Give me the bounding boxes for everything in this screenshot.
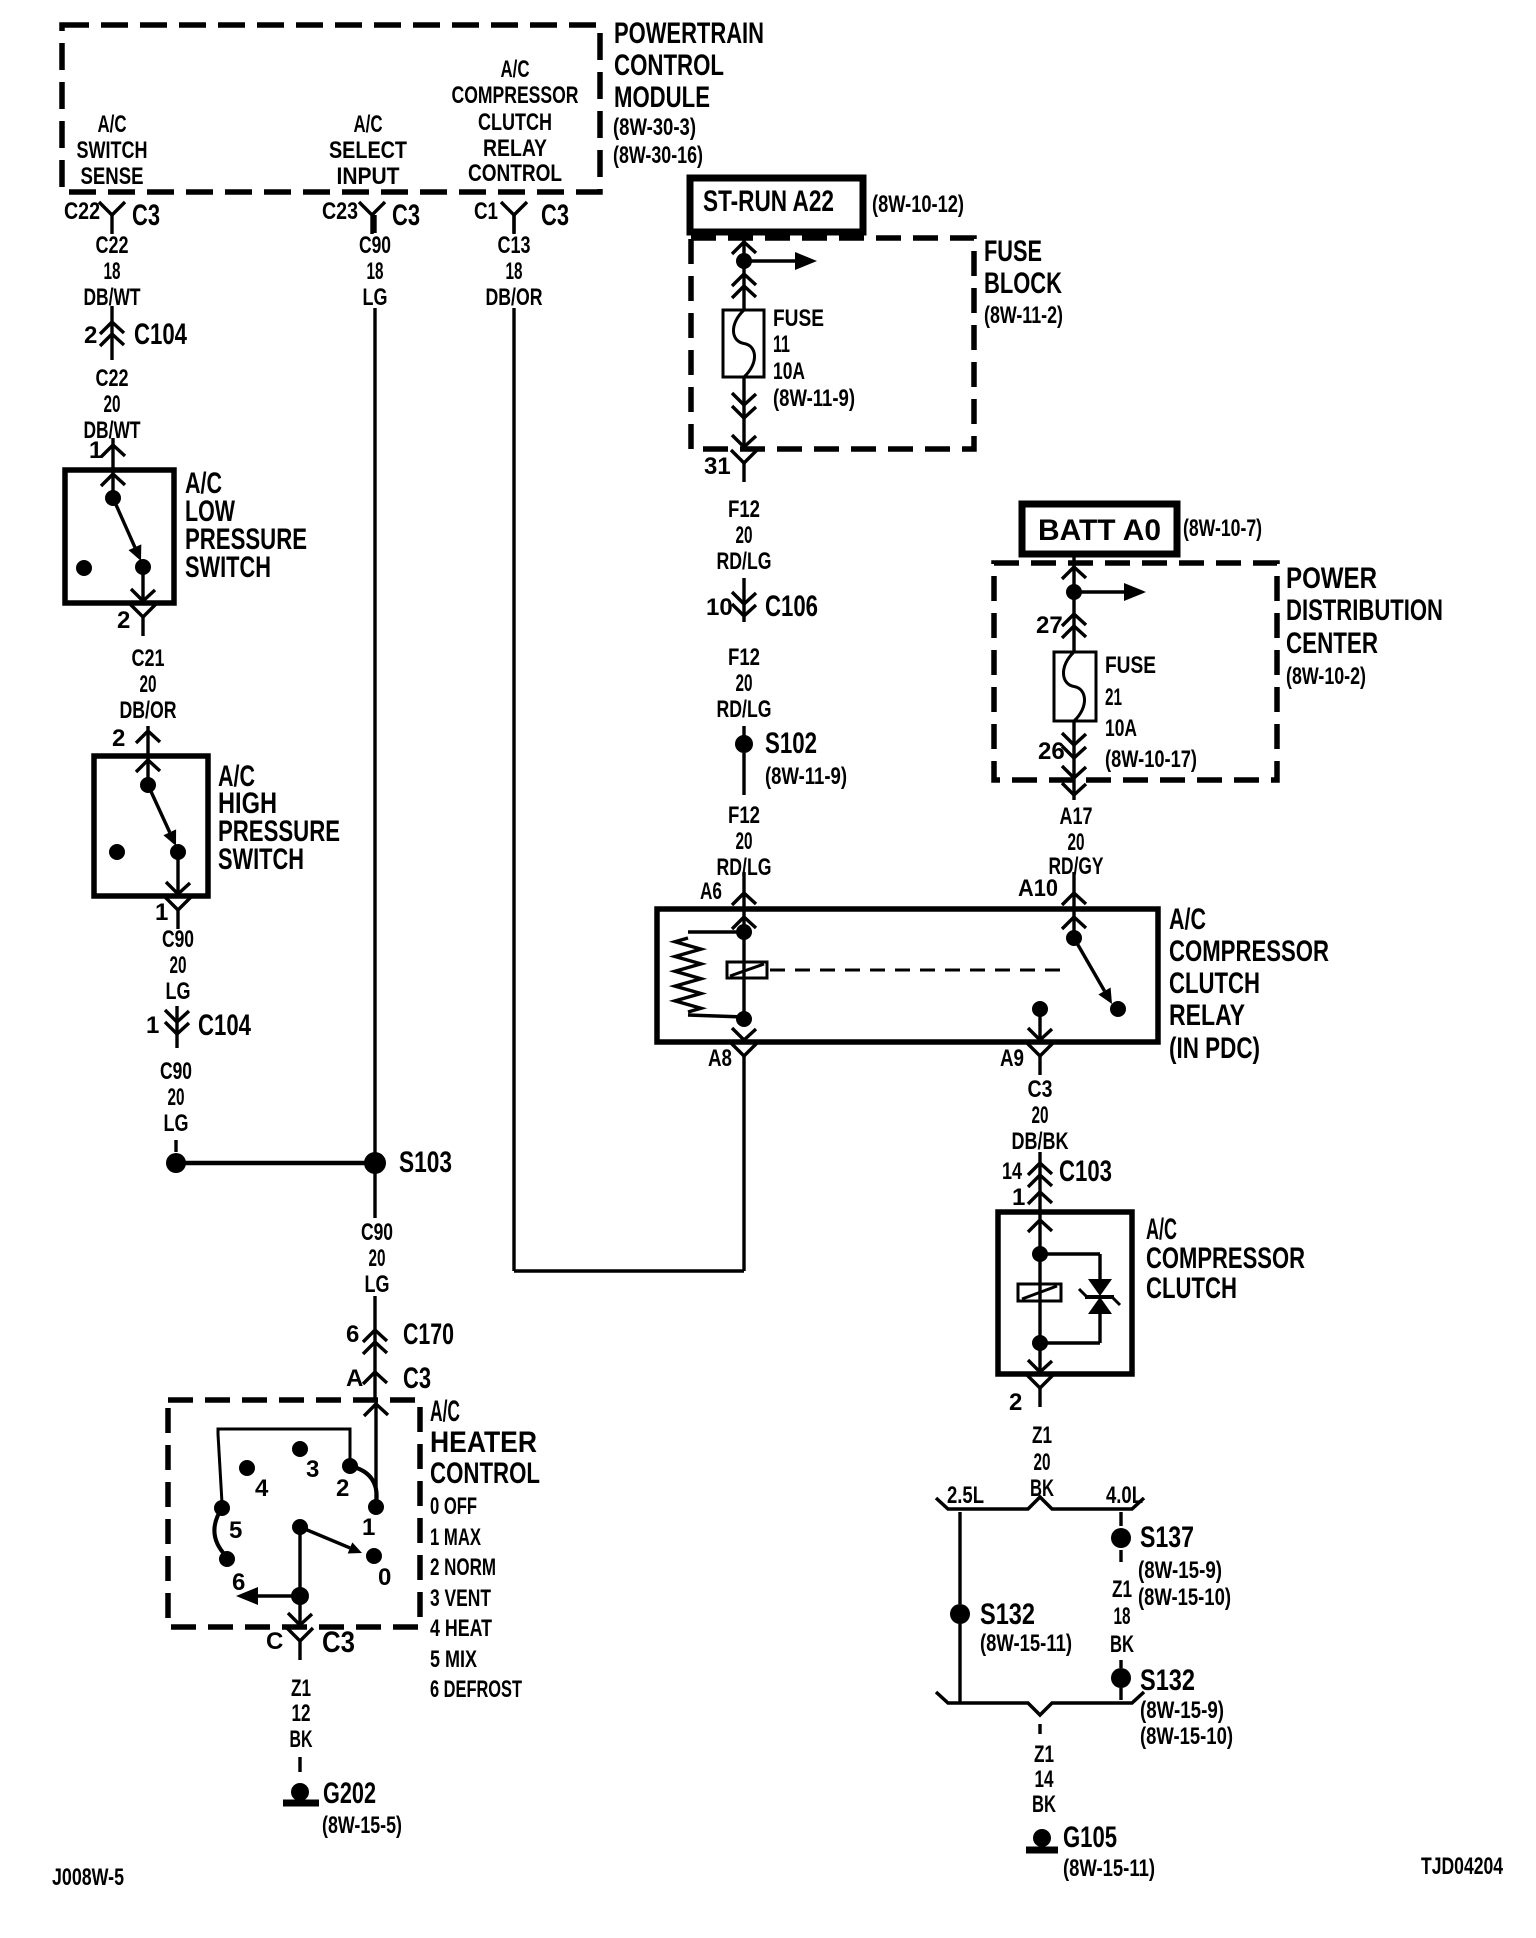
heater rotary position numbers	[229, 1456, 391, 1596]
heater common left arrow	[236, 1587, 309, 1605]
svg-text:(8W-30-3): (8W-30-3)	[613, 114, 696, 141]
wire label F12 20 RD/LG (1)	[717, 496, 772, 575]
svg-text:INPUT: INPUT	[337, 163, 400, 190]
relay actuation dashed link	[770, 969, 1063, 972]
svg-text:S102: S102	[765, 727, 817, 760]
svg-text:(8W-10-12): (8W-10-12)	[872, 191, 964, 218]
relay pin A10 connector	[1018, 872, 1086, 929]
svg-text:CLUTCH: CLUTCH	[1169, 967, 1260, 1000]
svg-text:6: 6	[346, 1321, 359, 1348]
sheet number J008W-5	[52, 1864, 124, 1891]
wire dash below merge bracket	[1038, 1724, 1041, 1734]
svg-text:C170: C170	[403, 1318, 454, 1351]
ground G202	[283, 1777, 402, 1839]
svg-text:COMPRESSOR: COMPRESSOR	[1169, 935, 1329, 968]
svg-text:5 MIX: 5 MIX	[430, 1646, 477, 1673]
svg-text:0 OFF: 0 OFF	[430, 1493, 477, 1520]
wire dash below lower S132	[1119, 1688, 1122, 1700]
relay pin A8 exit connector	[708, 1028, 757, 1075]
svg-text:RELAY: RELAY	[483, 135, 547, 162]
fuse 11 10A	[723, 310, 764, 447]
clutch diode branch wires	[1040, 1254, 1100, 1343]
wire label F12 20 RD/LG (2)	[717, 644, 772, 723]
svg-text:2 NORM: 2 NORM	[430, 1554, 496, 1581]
svg-text:COMPRESSOR: COMPRESSOR	[1146, 1242, 1305, 1275]
relay coil circuit	[675, 909, 752, 1027]
splice S102	[735, 727, 847, 790]
svg-text:A10: A10	[1018, 875, 1058, 902]
wire label C13 18 DB/OR	[486, 232, 543, 311]
svg-text:F12: F12	[728, 496, 760, 523]
heater exit connector C3 pin C	[266, 1596, 355, 1660]
heater mode list	[430, 1493, 522, 1703]
fuse 21 10A	[1054, 652, 1096, 778]
wire label Z1 18 BK (4.0L)	[1110, 1576, 1134, 1658]
A/C high pressure switch box	[94, 756, 208, 896]
svg-text:ST-RUN A22: ST-RUN A22	[703, 185, 834, 218]
svg-text:27: 27	[1036, 612, 1063, 639]
PDC pin 26 connector chevrons	[1038, 733, 1086, 765]
svg-text:LG: LG	[166, 978, 191, 1005]
svg-text:CLUTCH: CLUTCH	[1146, 1272, 1237, 1305]
svg-text:3: 3	[306, 1456, 319, 1483]
svg-text:2: 2	[1009, 1389, 1022, 1416]
fuse 21 label	[1105, 652, 1197, 773]
fuse block bus dot and arrow	[736, 252, 817, 270]
svg-text:(8W-15-10): (8W-15-10)	[1140, 1723, 1233, 1750]
fuse block title	[984, 235, 1063, 329]
svg-text:C22: C22	[96, 365, 129, 392]
heater arc position 5 to 6	[214, 1508, 226, 1556]
svg-text:(8W-15-5): (8W-15-5)	[322, 1812, 402, 1839]
svg-text:S132: S132	[980, 1598, 1035, 1631]
svg-text:BATT A0: BATT A0	[1038, 514, 1161, 547]
wire label C90 18 LG	[359, 232, 391, 311]
svg-text:C106: C106	[765, 590, 818, 623]
svg-text:26: 26	[1038, 738, 1065, 765]
A/C compressor clutch relay box (in PDC)	[657, 909, 1158, 1042]
svg-text:LG: LG	[363, 284, 388, 311]
svg-text:C13: C13	[498, 232, 531, 259]
wire below S102	[742, 753, 745, 795]
svg-text:(8W-15-11): (8W-15-11)	[1063, 1855, 1155, 1882]
svg-text:(8W-10-7): (8W-10-7)	[1183, 515, 1262, 542]
svg-text:C3: C3	[403, 1362, 431, 1395]
splice S137 (4.0L)	[1111, 1521, 1231, 1611]
wire dash above S102	[742, 726, 745, 737]
svg-text:BK: BK	[1032, 1791, 1056, 1818]
fuse block dashed box	[691, 238, 974, 449]
heater wiper arrow to position 0	[300, 1527, 362, 1554]
heater arc position 2 to 1	[350, 1466, 377, 1505]
svg-text:Z1: Z1	[1032, 1422, 1052, 1449]
PCM pin label A/C SELECT INPUT	[329, 111, 407, 190]
svg-text:J008W-5: J008W-5	[52, 1864, 124, 1891]
svg-text:CLUTCH: CLUTCH	[478, 109, 552, 136]
connector C3 pin C23 (PCM)	[322, 198, 420, 234]
splice S103	[364, 1146, 452, 1179]
svg-text:20: 20	[736, 828, 753, 855]
svg-text:A9: A9	[1000, 1045, 1024, 1072]
svg-text:BLOCK: BLOCK	[984, 267, 1062, 300]
svg-text:C3: C3	[322, 1626, 355, 1659]
wire label C90 20 LG	[162, 926, 194, 1005]
svg-text:F12: F12	[728, 802, 760, 829]
svg-text:C22: C22	[96, 232, 129, 259]
PDC bus dot and arrow	[1066, 583, 1146, 601]
heater control rotary track	[218, 1429, 350, 1503]
svg-text:20: 20	[140, 671, 157, 698]
relay pin A9 exit connector	[1000, 1028, 1053, 1075]
wire junction to splice S103	[176, 1161, 375, 1166]
svg-text:C104: C104	[134, 318, 187, 351]
low pressure switch pin 2 exit connector	[117, 567, 156, 636]
clutch title	[1146, 1213, 1305, 1305]
A/C high pressure switch title	[218, 760, 340, 876]
svg-text:LG: LG	[164, 1110, 189, 1137]
svg-text:5: 5	[229, 1517, 242, 1544]
svg-text:RD/LG: RD/LG	[717, 696, 772, 723]
fuse block bus connector chevrons	[732, 274, 756, 298]
svg-text:C90: C90	[359, 232, 391, 259]
svg-text:14: 14	[1002, 1158, 1022, 1185]
svg-text:A/C: A/C	[354, 111, 383, 138]
clutch coil symbol	[1018, 1284, 1061, 1301]
svg-text:20: 20	[736, 522, 753, 549]
relay pin A6 connector	[700, 872, 756, 929]
svg-text:18: 18	[1114, 1603, 1131, 1630]
A/C low pressure switch box	[65, 470, 174, 603]
splice S132 (2.5L)	[950, 1598, 1072, 1657]
wire 2.5L branch lower	[958, 1624, 961, 1702]
svg-text:31: 31	[704, 453, 731, 480]
svg-text:A17: A17	[1060, 803, 1093, 830]
svg-text:(8W-15-9): (8W-15-9)	[1140, 1697, 1224, 1724]
svg-text:(8W-10-2): (8W-10-2)	[1286, 663, 1366, 690]
svg-text:20: 20	[1068, 829, 1085, 856]
svg-text:20: 20	[168, 1084, 185, 1111]
wire label C21 20 DB/OR	[120, 645, 177, 724]
svg-text:6: 6	[232, 1569, 245, 1596]
svg-text:20: 20	[369, 1245, 386, 1272]
svg-text:CONTROL: CONTROL	[430, 1457, 540, 1490]
wire to heater control	[373, 1296, 376, 1400]
svg-text:TJD04204: TJD04204	[1421, 1853, 1503, 1880]
svg-text:(8W-11-9): (8W-11-9)	[765, 763, 847, 790]
A/C low pressure switch title	[185, 467, 307, 584]
svg-text:C90: C90	[162, 926, 194, 953]
wire dash above G202	[298, 1757, 301, 1772]
svg-text:POWERTRAIN: POWERTRAIN	[614, 17, 764, 50]
wire A/C select input (C90) vertical	[373, 215, 376, 1218]
PCM pin label A/C SWITCH SENSE	[77, 111, 148, 190]
svg-text:(8W-15-9): (8W-15-9)	[1138, 1557, 1222, 1584]
svg-text:21: 21	[1105, 684, 1122, 711]
relay switch arm from A10	[1066, 909, 1126, 1017]
drawing number TJD04204	[1421, 1853, 1503, 1880]
svg-text:HEATER: HEATER	[430, 1426, 537, 1459]
svg-text:14: 14	[1035, 1766, 1054, 1793]
svg-text:F12: F12	[728, 644, 760, 671]
svg-text:0: 0	[378, 1564, 391, 1591]
svg-text:2: 2	[336, 1475, 349, 1502]
svg-text:3 VENT: 3 VENT	[430, 1585, 491, 1612]
power distribution center title	[1286, 562, 1443, 690]
svg-text:SELECT: SELECT	[329, 137, 407, 164]
splice S132 (4.0L)	[1111, 1664, 1233, 1750]
svg-text:S103: S103	[399, 1146, 452, 1179]
clutch suppression diode	[1079, 1279, 1120, 1314]
svg-text:SWITCH: SWITCH	[77, 137, 148, 164]
svg-text:C3: C3	[541, 199, 569, 232]
clutch coil branch	[1032, 1246, 1048, 1351]
svg-text:BK: BK	[1110, 1631, 1134, 1658]
svg-text:FUSE: FUSE	[773, 305, 824, 332]
svg-text:C3: C3	[132, 199, 160, 232]
wire 2.5L branch	[958, 1512, 961, 1604]
wire label C90 20 LG (below S103)	[361, 1219, 393, 1298]
high pressure switch contacts and arm	[109, 777, 186, 860]
relay contact to A9	[1032, 1001, 1048, 1040]
svg-text:A/C: A/C	[430, 1395, 460, 1428]
wire label Z1 12 BK	[290, 1675, 313, 1753]
svg-text:(8W-30-16): (8W-30-16)	[613, 142, 703, 169]
connector C106 pin 10	[706, 578, 818, 623]
connector C104 pin 2	[84, 306, 187, 360]
clutch pin 2 exit connector	[1009, 1343, 1053, 1416]
PDC pin 27 connector chevrons	[1036, 612, 1086, 639]
svg-text:G105: G105	[1063, 1821, 1117, 1854]
svg-text:4: 4	[255, 1475, 269, 1502]
heater wire from pin A to position 1	[374, 1400, 377, 1505]
wire ST-RUN into fuse block	[732, 232, 756, 310]
svg-text:C21: C21	[132, 645, 165, 672]
svg-text:RD/LG: RD/LG	[717, 548, 772, 575]
svg-text:(8W-10-17): (8W-10-17)	[1105, 746, 1197, 773]
svg-text:CENTER: CENTER	[1286, 627, 1378, 660]
svg-text:RELAY: RELAY	[1169, 999, 1245, 1032]
svg-text:A/C: A/C	[1169, 903, 1206, 936]
svg-text:FUSE: FUSE	[1105, 652, 1156, 679]
svg-text:(IN PDC): (IN PDC)	[1169, 1032, 1260, 1065]
svg-text:Z1: Z1	[1034, 1741, 1054, 1768]
wire label F12 20 RD/LG (3)	[717, 802, 772, 881]
svg-text:SWITCH: SWITCH	[185, 551, 271, 584]
svg-text:C3: C3	[392, 199, 420, 232]
heater rotary position dots	[214, 1441, 384, 1567]
svg-text:18: 18	[506, 258, 523, 285]
wire label C90 20 LG (below C104)	[160, 1058, 192, 1137]
svg-text:C23: C23	[322, 198, 358, 225]
svg-text:11: 11	[773, 331, 790, 358]
junction dot left	[166, 1153, 186, 1173]
svg-text:LG: LG	[365, 1271, 390, 1298]
svg-text:C22: C22	[64, 198, 100, 225]
connector C3 pin C1 (PCM)	[474, 198, 569, 234]
power distribution center dashed box	[994, 563, 1277, 780]
svg-text:SWITCH: SWITCH	[218, 843, 304, 876]
svg-text:2: 2	[117, 607, 130, 634]
svg-text:20: 20	[1034, 1449, 1051, 1476]
svg-text:1: 1	[155, 899, 168, 926]
ground G105	[1026, 1821, 1155, 1882]
svg-text:2: 2	[112, 725, 125, 752]
wire into low pressure switch + pin 1 connector	[89, 437, 125, 498]
svg-text:BK: BK	[290, 1726, 313, 1753]
svg-text:(8W-11-9): (8W-11-9)	[773, 385, 855, 412]
svg-text:C1: C1	[474, 198, 498, 225]
A/C heater control title	[430, 1395, 540, 1490]
svg-text:DB/OR: DB/OR	[486, 284, 543, 311]
heater control entry connector at border	[364, 1404, 388, 1416]
svg-text:COMPRESSOR: COMPRESSOR	[452, 82, 579, 109]
svg-text:S132: S132	[1140, 1664, 1195, 1697]
high pressure switch pin 1 exit connector	[155, 852, 191, 929]
svg-text:C103: C103	[1059, 1155, 1112, 1188]
wire dash above lower S132	[1119, 1660, 1122, 1668]
svg-text:DB/OR: DB/OR	[120, 697, 177, 724]
A/C compressor clutch box	[998, 1212, 1132, 1374]
connector C3 pin A (heater control)	[346, 1362, 431, 1395]
svg-text:20: 20	[736, 670, 753, 697]
wire label C22 18 DB/WT	[84, 232, 141, 311]
wire dash to junction	[174, 1140, 177, 1152]
svg-text:10A: 10A	[773, 358, 805, 385]
svg-text:A: A	[346, 1365, 363, 1392]
svg-text:(8W-11-2): (8W-11-2)	[984, 302, 1063, 329]
wire label C22 20 DB/WT	[84, 365, 141, 444]
svg-text:CONTROL: CONTROL	[468, 160, 562, 187]
wire label A17 20 RD/GY	[1049, 803, 1104, 880]
svg-text:POWER: POWER	[1286, 562, 1377, 595]
PCM title POWERTRAIN CONTROL MODULE (8W-30-3)(8W-30-16)	[613, 17, 764, 169]
svg-text:A/C: A/C	[98, 111, 127, 138]
svg-text:1: 1	[146, 1012, 159, 1039]
svg-text:FUSE: FUSE	[984, 235, 1042, 268]
wire label Z1 20 BK	[1030, 1422, 1054, 1502]
fuse 11 label	[773, 305, 855, 412]
svg-text:1: 1	[362, 1514, 375, 1541]
relay title	[1169, 903, 1329, 1065]
connector C103 pins 14 and 1	[1002, 1152, 1112, 1212]
svg-text:20: 20	[170, 952, 187, 979]
svg-text:A8: A8	[708, 1045, 732, 1072]
svg-text:18: 18	[104, 258, 121, 285]
svg-text:DB/BK: DB/BK	[1012, 1128, 1069, 1155]
svg-text:Z1: Z1	[291, 1675, 311, 1702]
BATT A0 feed box	[1022, 504, 1262, 554]
svg-text:A/C: A/C	[501, 56, 530, 83]
connector C3 pin C22 (PCM)	[64, 198, 160, 234]
connector C104 pin 1	[146, 1006, 251, 1048]
svg-text:MODULE: MODULE	[614, 81, 710, 114]
heater wiper common wire	[298, 1527, 301, 1596]
svg-text:Z1: Z1	[1112, 1576, 1132, 1603]
svg-text:G202: G202	[323, 1777, 376, 1810]
pin 2 connector into high pressure switch	[112, 725, 160, 785]
wire C13 DB/OR from PCM to relay A8	[514, 215, 744, 1271]
svg-text:C90: C90	[361, 1219, 393, 1246]
svg-text:1: 1	[1012, 1184, 1025, 1211]
svg-text:DISTRIBUTION: DISTRIBUTION	[1286, 594, 1443, 627]
svg-text:2: 2	[84, 322, 97, 349]
svg-text:(8W-15-11): (8W-15-11)	[980, 1630, 1072, 1657]
svg-text:6 DEFROST: 6 DEFROST	[430, 1676, 522, 1703]
A/C heater control dashed box	[168, 1400, 420, 1627]
svg-text:C: C	[266, 1628, 283, 1655]
clutch box entry connector	[1028, 1212, 1052, 1254]
wire 4.0L branch dashes	[1119, 1512, 1122, 1562]
wire label Z1 14 BK	[1032, 1741, 1056, 1818]
svg-text:(8W-15-10): (8W-15-10)	[1138, 1584, 1231, 1611]
merge bracket to ground wire	[936, 1692, 1144, 1715]
svg-text:S137: S137	[1140, 1521, 1194, 1554]
svg-text:4 HEAT: 4 HEAT	[430, 1615, 492, 1642]
fuse block exit chevrons	[732, 393, 756, 418]
svg-text:C3: C3	[1028, 1076, 1053, 1103]
svg-text:10: 10	[706, 594, 733, 621]
svg-text:20: 20	[104, 391, 121, 418]
engine variant labels 2.5L / 4.0L	[947, 1482, 1143, 1509]
svg-text:A6: A6	[700, 878, 722, 905]
ST-RUN A22 feed box	[690, 178, 964, 232]
connector C170 pin 6	[346, 1318, 454, 1354]
low pressure switch contacts and arm	[76, 490, 151, 576]
svg-text:C90: C90	[160, 1058, 192, 1085]
svg-text:1: 1	[89, 437, 102, 464]
PCM dashed box: POWERTRAIN CONTROL MODULE	[62, 25, 600, 192]
wire label C3 20 DB/BK	[1012, 1076, 1069, 1155]
svg-text:1 MAX: 1 MAX	[430, 1524, 481, 1551]
wire BATT into PDC	[1062, 554, 1086, 652]
relay coil symbol	[727, 962, 767, 978]
svg-text:20: 20	[1032, 1102, 1049, 1129]
PDC exit border chevrons	[1062, 766, 1086, 800]
svg-text:12: 12	[292, 1700, 311, 1727]
svg-text:CONTROL: CONTROL	[614, 49, 724, 82]
fuse block exit connector pin 31	[704, 435, 757, 482]
split bracket to engine variants	[936, 1497, 1144, 1509]
svg-text:C104: C104	[198, 1009, 251, 1042]
svg-text:18: 18	[367, 258, 384, 285]
svg-text:2.5L: 2.5L	[947, 1482, 984, 1509]
svg-text:SENSE: SENSE	[81, 163, 144, 190]
svg-text:10A: 10A	[1105, 715, 1137, 742]
PCM pin label A/C COMPRESSOR CLUTCH RELAY CONTROL	[452, 56, 579, 187]
